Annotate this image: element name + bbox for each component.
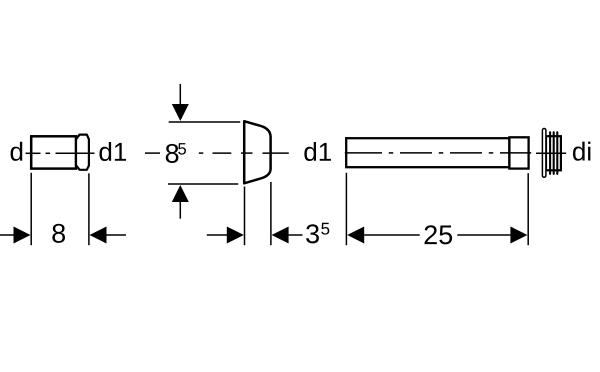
dim 3.5 right arrowhead pointing left <box>272 227 289 244</box>
extension line socket left <box>30 173 32 245</box>
tube body <box>346 138 509 167</box>
dim 8 left tail <box>0 234 14 236</box>
socket joint line <box>75 136 77 168</box>
bottom extension line of cap height <box>168 183 238 185</box>
label d1 (tube) <box>304 142 331 161</box>
dim 8 left arrowhead pointing right <box>14 227 31 244</box>
top extension line of cap height <box>169 121 241 123</box>
socket centerline <box>26 152 95 154</box>
dimension text 3 <box>306 224 319 243</box>
dim 3.5 left arrowhead pointing right <box>227 227 244 244</box>
dim 25 line right segment <box>457 234 510 236</box>
gasket ribs <box>550 132 557 174</box>
extension line tube left <box>345 173 347 245</box>
dim 3.5 right tail <box>289 234 303 236</box>
gasket body <box>546 136 561 170</box>
dimension text 8 <box>52 224 65 243</box>
label d <box>11 142 23 161</box>
gasket flange <box>542 129 546 178</box>
vertical dimension upper arrowhead pointing down <box>172 104 189 121</box>
dimension superscript 5 of 3.5 <box>321 223 329 235</box>
cap centerline <box>145 152 289 154</box>
vertical dimension lower arrowhead pointing up <box>172 185 189 202</box>
dimension text 25 <box>425 225 453 244</box>
extension line cap left <box>244 187 246 246</box>
dim 8 right tail <box>107 234 127 236</box>
dimension text 8 of vertical dim <box>166 144 179 163</box>
gasket centerline <box>536 152 566 154</box>
cap (middle part) <box>244 121 270 183</box>
socket body (left fitting) <box>31 136 76 168</box>
tube centerline <box>345 152 531 154</box>
vertical dimension upper arrow line <box>179 84 181 105</box>
label di <box>573 142 590 161</box>
tube end block <box>509 137 528 168</box>
socket bead (press end) <box>76 135 89 170</box>
extension line tube right <box>527 173 529 245</box>
extension line cap right <box>270 182 272 245</box>
dim 3.5 left tail <box>207 234 228 236</box>
vertical dimension lower arrow line <box>179 202 181 219</box>
dim 25 left arrowhead pointing left <box>347 227 364 244</box>
extension line socket right <box>88 173 90 245</box>
dim 8 right arrowhead pointing left <box>90 227 107 244</box>
label d1 (socket) <box>99 142 126 161</box>
dim 25 line left segment <box>364 234 420 236</box>
dimension superscript 5 of vertical dim <box>178 143 186 155</box>
dim 25 right arrowhead pointing right <box>510 227 527 244</box>
